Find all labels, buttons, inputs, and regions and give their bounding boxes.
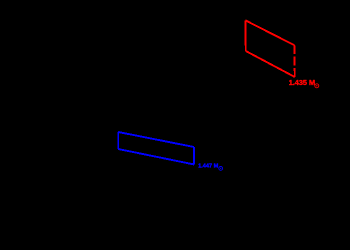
svg-text:1.435 M: 1.435 M [289,78,315,87]
wire: blue top edge [118,132,194,147]
wire: red bottom edge [246,51,295,77]
node: blue mass label 1.447 M_sun [198,163,223,170]
blue parallelogram region [118,132,194,165]
wire: blue left edge [117,132,119,149]
wire: red top edge [245,20,294,45]
node: red mass label 1.435 M_sun [289,78,319,88]
wire: red left edge [244,20,247,51]
wire: red right edge (dashed look) [293,45,296,77]
wire: blue bottom edge [118,149,194,165]
wire: blue right edge [193,147,195,165]
red parallelogram region [245,20,294,77]
svg-text:1.447 M: 1.447 M [198,163,219,169]
